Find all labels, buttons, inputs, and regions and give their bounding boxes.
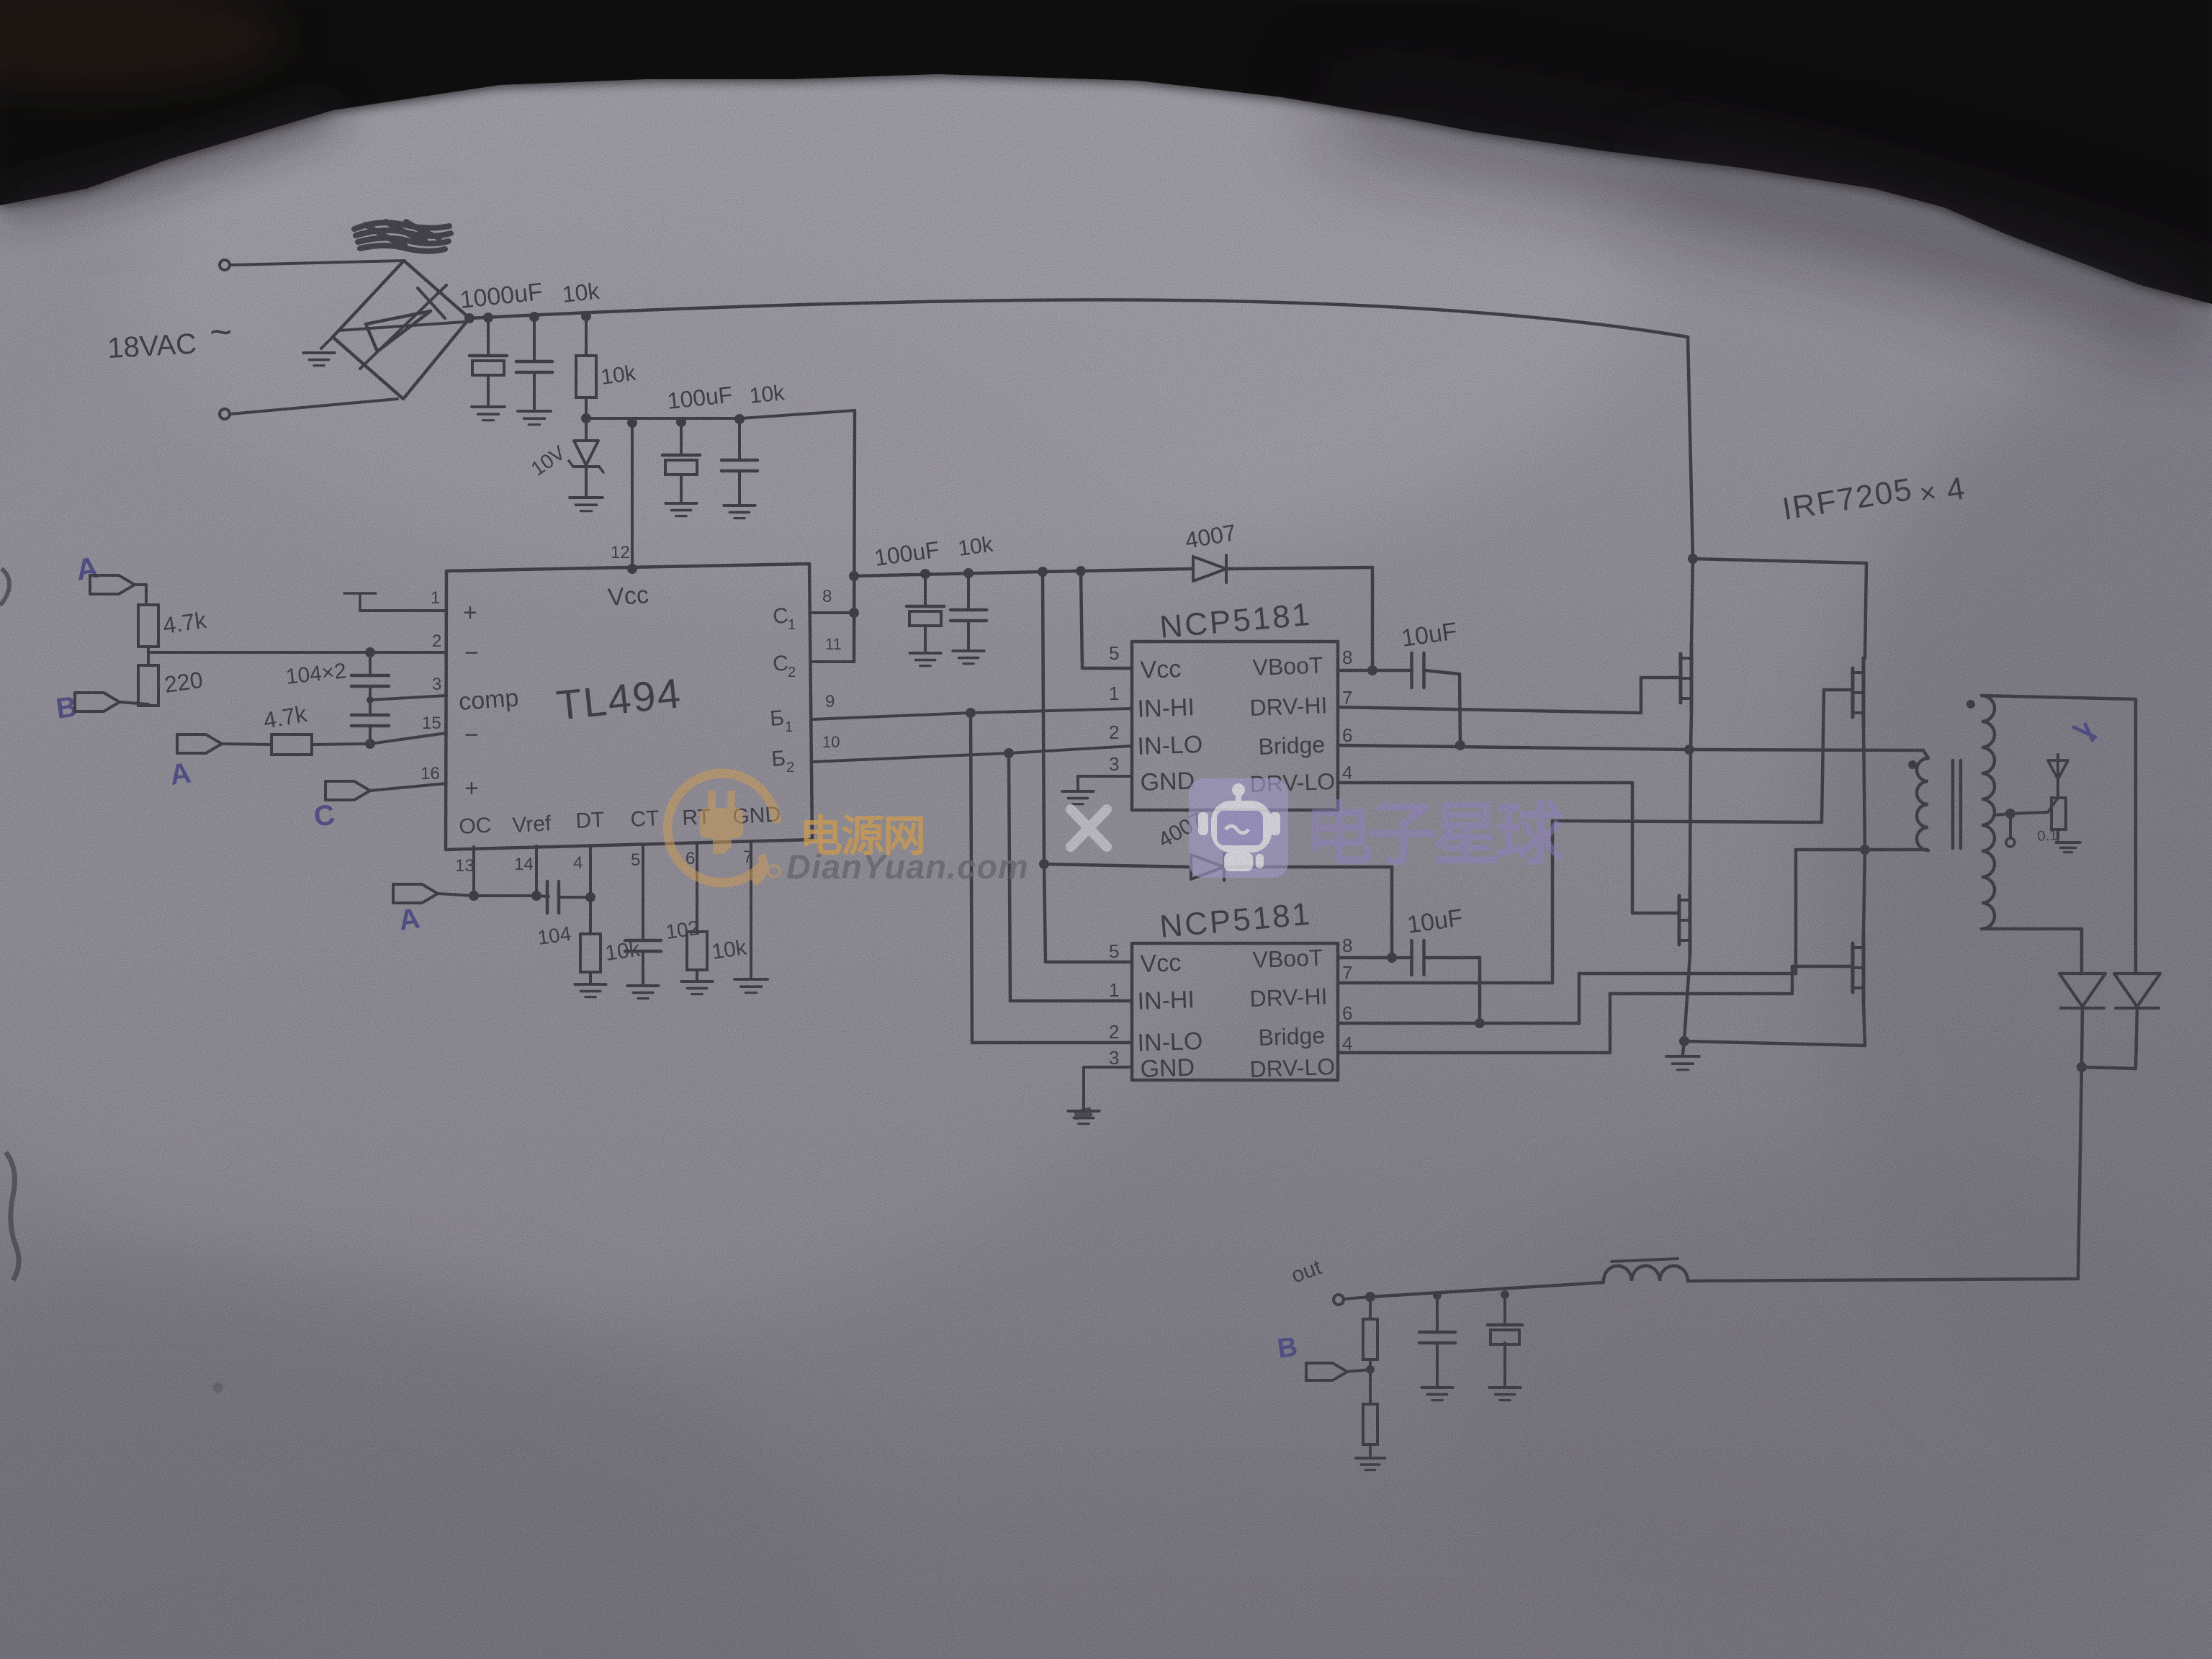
wire: Vcc drop to NCP1 Vcc (line B) <box>1081 571 1082 668</box>
capacitor C8 102 <box>625 939 661 943</box>
capacitor C9 100uF <box>924 574 927 605</box>
resistor R2 4.7k <box>138 605 158 647</box>
wire: C1/C2 join up to Vcc rail <box>854 410 855 662</box>
wire: zener Vcc rail <box>586 417 741 420</box>
diode D2 4007 bootstrap <box>1191 855 1224 879</box>
resistor R3 220 <box>138 665 158 706</box>
capacitor C5 104 <box>369 652 372 674</box>
capacitor C10 <box>967 573 970 608</box>
blue pen mark <box>2074 724 2095 740</box>
primary phase dot <box>1908 760 1917 769</box>
node top bus <box>1688 554 1698 564</box>
wire CT pin 5 <box>642 845 644 939</box>
wire to pin 2 <box>148 651 446 654</box>
transformer core <box>1951 760 1955 848</box>
wire E2 branch down to NCP2 IN-HI <box>1009 753 1010 1001</box>
wire Bridge pin6 to node A <box>1338 745 1689 750</box>
transistor Q1 IRF7205 <box>1691 559 1693 644</box>
wire: main DC bus to right <box>469 300 1688 337</box>
resistor R5 10k <box>580 934 601 972</box>
capacitor C11 10uF bootstrap <box>1410 653 1413 688</box>
node A wire to transformer <box>1689 750 1923 750</box>
wire GND pin 7 <box>750 842 752 977</box>
resistor R8 divider bottom <box>1363 1404 1377 1444</box>
node <box>963 568 974 578</box>
resistor R7 divider top <box>1369 1297 1372 1319</box>
capacitor C6 104 <box>351 714 389 717</box>
capacitor C3 100uF electrolytic <box>680 422 683 454</box>
wire output bottom run <box>1688 1279 2078 1281</box>
input terminal bottom <box>220 409 230 419</box>
node <box>1038 567 1048 577</box>
node <box>676 417 686 427</box>
wire DRV-HI2 pin7 to Q2 gate <box>1338 981 1552 985</box>
node <box>483 313 493 323</box>
wire DT pin 4 <box>589 845 592 934</box>
dark background above paper <box>0 0 2212 304</box>
watermark X <box>1071 809 1107 847</box>
watermark robot icon <box>1189 778 1288 878</box>
pin 1 noninv input <box>360 609 446 612</box>
wire down to output run <box>2078 1067 2082 1279</box>
wire: Vcc drop to NCP2 (line A) <box>1043 572 1044 864</box>
node <box>1365 1292 1375 1302</box>
driver U2 NCP5181 <box>1132 642 1338 810</box>
capacitor C13 output <box>1436 1295 1439 1331</box>
wire inductor to out <box>1370 1282 1604 1297</box>
inductor L1 <box>1604 1266 1688 1281</box>
wire to VBOOT corner <box>1226 567 1372 569</box>
diode D3 output <box>2059 974 2105 1007</box>
wire OC pin 13 <box>472 847 475 896</box>
resistor R4 4.7k <box>271 734 312 755</box>
watermark dianyuan plug logo <box>645 751 799 904</box>
wire E1 row <box>812 713 971 719</box>
resistor R1 10k <box>585 316 588 356</box>
wire secondary bottom lead <box>1982 927 2082 931</box>
wire Q1 source to node A <box>1691 713 1691 750</box>
node <box>1433 1291 1442 1300</box>
transformer T1 secondary <box>1982 696 1995 929</box>
node on line A <box>1039 859 1049 869</box>
wire rail continues <box>1043 571 1081 572</box>
wire secondary top lead <box>1982 696 2136 699</box>
input terminal top <box>220 260 230 270</box>
wire DRV-LO pin4 to Q3 gate <box>1338 781 1632 785</box>
wire to diode D2 <box>1044 864 1190 867</box>
wire E1 branch down to NCP2 IN-LO <box>971 713 972 1043</box>
node <box>734 414 745 424</box>
wire bus to Q2 drain <box>1693 559 1866 563</box>
paper edge marks <box>0 569 9 605</box>
wire Bridge2 pin6 to node B <box>1338 1022 1579 1025</box>
wire DRV-LO2 pin4 to Q4 gate <box>1338 1051 1610 1055</box>
wire Vcc rail right <box>854 572 1043 576</box>
diode D4 output <box>2114 974 2160 1007</box>
node: zener rail <box>581 413 591 423</box>
wire: Vcc feed down to TL494 pin 12 <box>631 423 634 569</box>
diode D1 4007 bootstrap <box>1193 557 1226 581</box>
capacitor C12 10uF bootstrap <box>1410 940 1413 975</box>
wire RT pin 6 <box>696 843 698 932</box>
transistor Q4 IRF7205 <box>1863 850 1865 933</box>
resistor R6 10k <box>687 932 707 970</box>
transformer T1 primary <box>1923 750 1928 758</box>
bridge rectifier BR1 <box>333 261 469 399</box>
op-amp U1 TL494 box <box>446 564 812 850</box>
zener diode ZD1 10V <box>585 418 588 440</box>
node <box>529 312 539 322</box>
NCP1 GND to ground <box>1078 775 1132 778</box>
wire line A down to NCP2 Vcc <box>1044 864 1046 962</box>
node: bridge output <box>464 313 475 323</box>
capacitor C14 output electrolytic <box>1503 1295 1506 1323</box>
driver U3 NCP5181 <box>1132 943 1338 1080</box>
snubber resistor 0.1R <box>2051 798 2066 829</box>
wire secondary right vertical <box>2134 699 2138 974</box>
wire join diode cathodes <box>2082 1067 2136 1069</box>
wire Q4 source to Q3 ground node <box>1863 1002 1865 1046</box>
secondary phase dot <box>1966 700 1975 709</box>
wire bottom input to bridge <box>230 399 397 414</box>
wire: bus right corner down <box>1688 337 1693 559</box>
node <box>627 418 637 428</box>
wire E2 row <box>812 753 1009 762</box>
secondary center tap <box>2005 809 2015 819</box>
node <box>581 311 591 321</box>
capacitor C1 1000uF electrolytic <box>487 318 490 354</box>
wire Vref pin 14 <box>535 846 538 896</box>
capacitor C2 <box>533 317 536 360</box>
wire Q2 source to node B <box>1863 727 1865 850</box>
node <box>365 647 375 657</box>
NCP2 GND to ground <box>1084 1066 1132 1069</box>
snubber diode <box>2056 755 2059 785</box>
wire VBOOT pin8 <box>1338 669 1412 673</box>
wire mid caps to comp pin 3 <box>370 696 446 700</box>
wire to pin 15 <box>312 744 370 745</box>
wire DRV-HI pin7 to Q1 gate <box>1338 707 1641 713</box>
capacitor C4 <box>738 419 741 459</box>
wire VBOOT2 pin8 <box>1338 956 1412 960</box>
transistor Q2 IRF7205 <box>1862 658 1866 727</box>
wire Q3 source to ground <box>1684 955 1690 1041</box>
scribbled-out label <box>354 222 451 251</box>
bridge diode symbol <box>338 322 464 331</box>
wire top input to bridge <box>230 261 403 265</box>
transistor Q3 IRF7205 <box>1690 750 1691 886</box>
ground at bridge left <box>321 337 333 349</box>
node <box>920 569 930 579</box>
node B wire to transformer bottom <box>1796 848 1927 852</box>
node <box>1501 1290 1509 1299</box>
out terminal <box>1334 1295 1344 1305</box>
capacitor C7 104 <box>536 896 549 896</box>
